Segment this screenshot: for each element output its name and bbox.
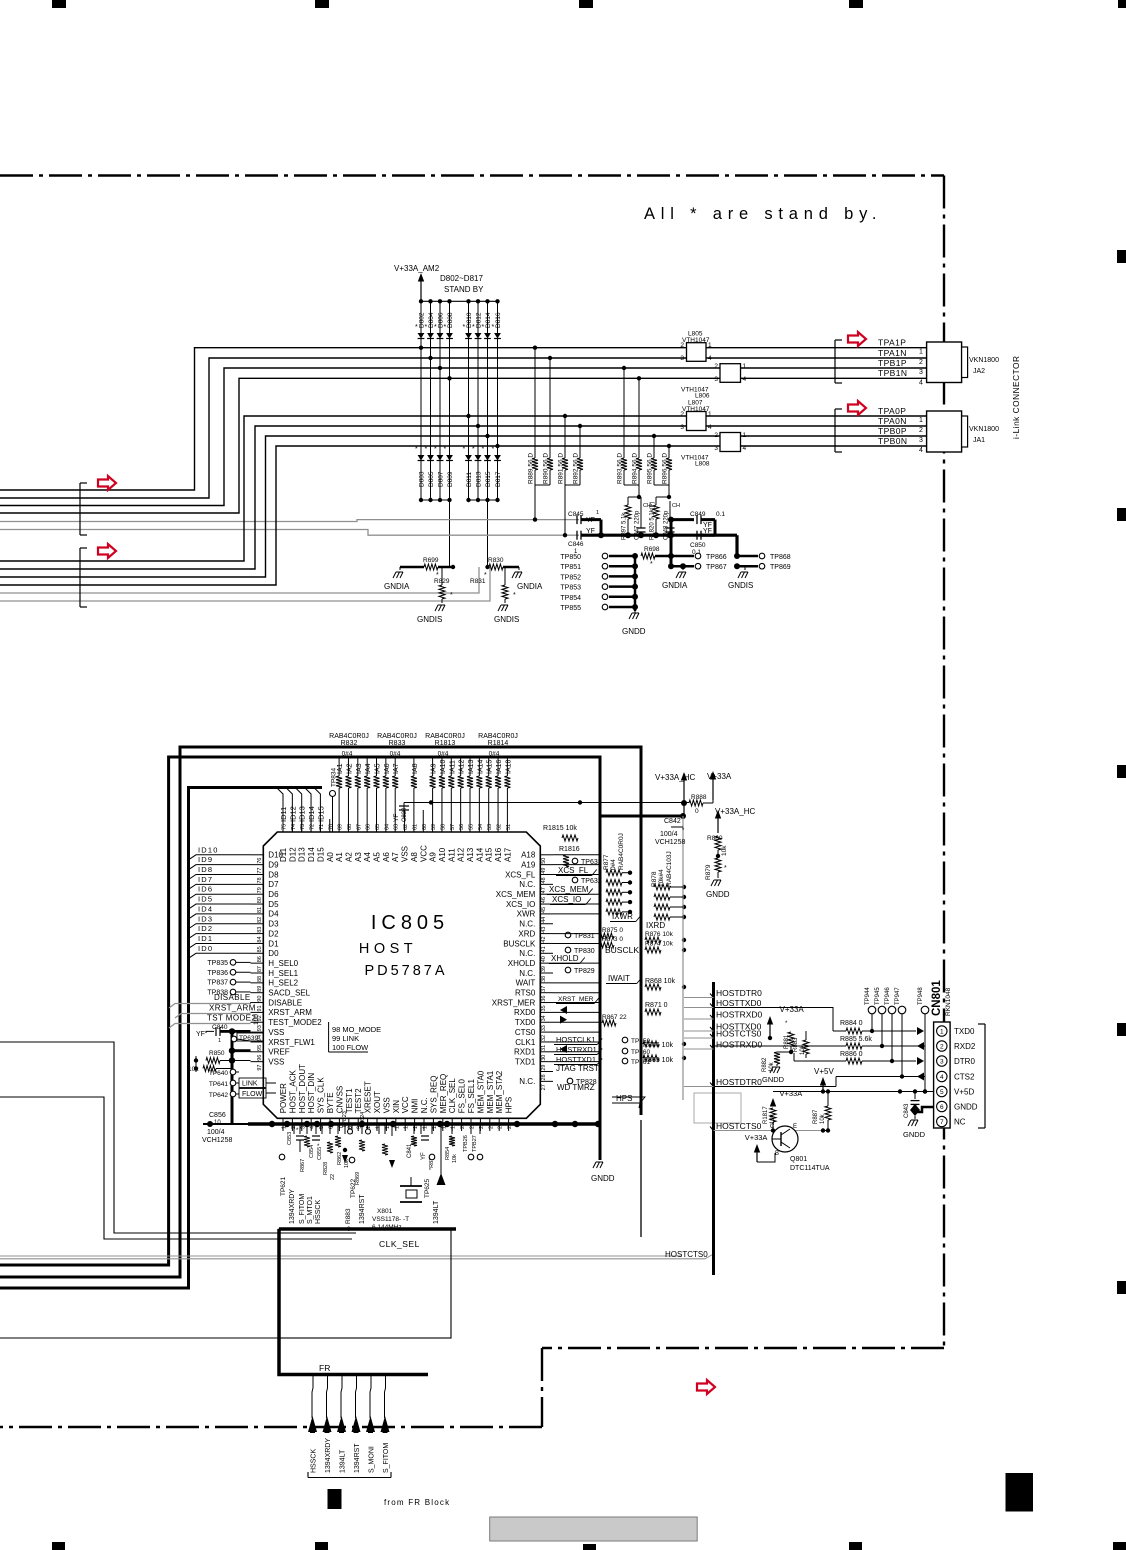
svg-text:IA3: IA3 bbox=[356, 763, 363, 774]
svg-text:*: * bbox=[482, 324, 485, 331]
svg-text:ID1: ID1 bbox=[198, 934, 213, 943]
svg-text:ID9: ID9 bbox=[198, 855, 213, 864]
svg-text:*: * bbox=[463, 446, 466, 453]
svg-text:22: 22 bbox=[330, 1174, 336, 1180]
svg-text:10k: 10k bbox=[452, 1154, 458, 1163]
svg-text:NC: NC bbox=[954, 1118, 966, 1127]
svg-text:XOUT: XOUT bbox=[373, 1091, 382, 1113]
svg-text:A5: A5 bbox=[373, 852, 382, 862]
svg-text:TP866: TP866 bbox=[706, 554, 727, 561]
svg-text:86: 86 bbox=[257, 956, 263, 962]
svg-text:C850: C850 bbox=[690, 542, 706, 549]
svg-text:TP829: TP829 bbox=[574, 968, 595, 975]
svg-text:JA1: JA1 bbox=[973, 437, 985, 444]
svg-text:TP837: TP837 bbox=[207, 980, 228, 987]
svg-text:*: * bbox=[450, 592, 453, 599]
svg-text:TP850: TP850 bbox=[560, 554, 581, 561]
svg-text:R882: R882 bbox=[762, 1057, 768, 1072]
svg-text:V+33A: V+33A bbox=[707, 772, 732, 781]
svg-text:*: * bbox=[444, 324, 447, 331]
svg-text:D811: D811 bbox=[466, 472, 473, 487]
svg-text:HOSTRXD0: HOSTRXD0 bbox=[716, 1010, 763, 1020]
svg-text:28: 28 bbox=[541, 1074, 547, 1080]
svg-text:D815: D815 bbox=[485, 471, 492, 487]
svg-text:TPA0P: TPA0P bbox=[878, 406, 906, 416]
svg-text:R862: R862 bbox=[337, 1152, 343, 1165]
svg-text:H_SEL2: H_SEL2 bbox=[268, 979, 298, 988]
svg-text:TP947: TP947 bbox=[895, 987, 901, 1005]
svg-text:MEM_STA1: MEM_STA1 bbox=[486, 1070, 495, 1113]
svg-text:35: 35 bbox=[541, 1005, 547, 1011]
svg-text:TXD1: TXD1 bbox=[515, 1057, 536, 1066]
svg-text:VTH1047: VTH1047 bbox=[682, 337, 710, 344]
svg-text:L806: L806 bbox=[695, 393, 710, 400]
svg-text:ID11: ID11 bbox=[279, 807, 288, 822]
svg-text:68: 68 bbox=[347, 824, 353, 830]
svg-text:GNDIS: GNDIS bbox=[728, 581, 753, 590]
svg-text:D15: D15 bbox=[316, 847, 325, 862]
svg-text:SACD_SEL: SACD_SEL bbox=[268, 989, 310, 998]
svg-text:2: 2 bbox=[714, 363, 718, 370]
svg-text:1394LT: 1394LT bbox=[340, 1449, 347, 1473]
svg-text:HSSCK: HSSCK bbox=[311, 1449, 318, 1473]
svg-text:R869: R869 bbox=[355, 1172, 361, 1185]
svg-text:43: 43 bbox=[541, 927, 547, 933]
svg-text:A6: A6 bbox=[382, 852, 391, 862]
svg-text:84: 84 bbox=[257, 936, 263, 942]
svg-text:TXD0: TXD0 bbox=[515, 1018, 536, 1027]
svg-text:IA6: IA6 bbox=[384, 763, 391, 774]
svg-text:64: 64 bbox=[384, 824, 390, 830]
svg-text:89: 89 bbox=[257, 986, 263, 992]
svg-text:83: 83 bbox=[257, 927, 263, 933]
svg-text:27: 27 bbox=[541, 1084, 547, 1090]
svg-text:DISABLE: DISABLE bbox=[268, 998, 302, 1007]
svg-text:GNDIS: GNDIS bbox=[417, 615, 442, 624]
svg-text:S_FITOM: S_FITOM bbox=[383, 1443, 390, 1473]
svg-text:D12: D12 bbox=[288, 847, 297, 862]
svg-text:CNVSS: CNVSS bbox=[335, 1086, 344, 1114]
svg-text:*: * bbox=[513, 592, 516, 599]
svg-text:76: 76 bbox=[257, 858, 263, 864]
svg-text:D809: D809 bbox=[447, 471, 454, 487]
svg-text:R833: R833 bbox=[389, 740, 406, 747]
svg-text:ID5: ID5 bbox=[198, 895, 213, 904]
svg-text:XHOLD: XHOLD bbox=[551, 954, 579, 963]
svg-text:D802~D817: D802~D817 bbox=[440, 274, 483, 283]
svg-text:IA18: IA18 bbox=[505, 759, 512, 774]
svg-text:IA8: IA8 bbox=[412, 763, 419, 774]
svg-text:TP855: TP855 bbox=[560, 605, 581, 612]
svg-text:TP946: TP946 bbox=[885, 987, 891, 1005]
svg-text:5: 5 bbox=[940, 1089, 944, 1096]
svg-text:0#4: 0#4 bbox=[390, 751, 401, 758]
svg-text:CLK_SEL: CLK_SEL bbox=[379, 1239, 420, 1249]
svg-text:46: 46 bbox=[541, 897, 547, 903]
svg-text:75: 75 bbox=[282, 824, 288, 830]
svg-text:RKN1048: RKN1048 bbox=[945, 987, 952, 1016]
svg-text:R895 56 D: R895 56 D bbox=[647, 453, 654, 484]
svg-text:TPA1P: TPA1P bbox=[878, 338, 906, 348]
svg-text:GNDD: GNDD bbox=[954, 1103, 978, 1112]
svg-text:XRST_MER: XRST_MER bbox=[492, 998, 536, 1007]
svg-text:R887: R887 bbox=[813, 1109, 819, 1124]
svg-text:*: * bbox=[463, 324, 466, 331]
svg-text:*: * bbox=[434, 324, 437, 331]
svg-text:N.C.: N.C. bbox=[519, 949, 535, 958]
svg-text:56: 56 bbox=[459, 824, 465, 830]
svg-text:45: 45 bbox=[541, 907, 547, 913]
svg-text:GNDD: GNDD bbox=[706, 890, 730, 899]
svg-text:TP624: TP624 bbox=[360, 1112, 366, 1128]
svg-text:C845: C845 bbox=[568, 511, 584, 518]
svg-text:D816: D816 bbox=[495, 312, 502, 328]
svg-text:A10: A10 bbox=[438, 847, 447, 862]
svg-text:CH: CH bbox=[672, 503, 680, 509]
svg-text:VCH1258: VCH1258 bbox=[202, 1137, 232, 1144]
svg-text:53: 53 bbox=[487, 824, 493, 830]
svg-text:4: 4 bbox=[708, 355, 712, 362]
svg-text:A1: A1 bbox=[335, 852, 344, 862]
svg-text:R877: R877 bbox=[603, 854, 610, 870]
svg-text:R699: R699 bbox=[423, 557, 439, 564]
svg-text:4: 4 bbox=[743, 445, 747, 452]
svg-text:A9: A9 bbox=[429, 852, 438, 862]
svg-text:S_FITOM: S_FITOM bbox=[299, 1194, 306, 1224]
svg-text:VCC: VCC bbox=[419, 845, 428, 862]
svg-text:C839: C839 bbox=[402, 807, 408, 822]
svg-text:4: 4 bbox=[919, 379, 923, 386]
svg-text:1394LT: 1394LT bbox=[433, 1200, 440, 1224]
svg-text:79: 79 bbox=[257, 887, 263, 893]
svg-text:D1: D1 bbox=[268, 939, 279, 948]
svg-text:SYS_REQ: SYS_REQ bbox=[429, 1076, 438, 1114]
svg-text:*: * bbox=[434, 446, 437, 453]
svg-text:V+33A: V+33A bbox=[745, 1133, 768, 1142]
svg-text:A8: A8 bbox=[410, 852, 419, 862]
svg-text:A19: A19 bbox=[521, 860, 536, 869]
svg-text:D6: D6 bbox=[268, 890, 279, 899]
svg-text:C843: C843 bbox=[904, 1103, 910, 1118]
svg-text:RAB4C0R0J: RAB4C0R0J bbox=[329, 733, 369, 740]
svg-text:R1814: R1814 bbox=[488, 740, 509, 747]
svg-text:ID6: ID6 bbox=[198, 885, 213, 894]
svg-text:GNDIA: GNDIA bbox=[662, 581, 688, 590]
svg-text:70: 70 bbox=[328, 824, 334, 830]
svg-text:D817: D817 bbox=[495, 471, 502, 487]
svg-text:78: 78 bbox=[257, 877, 263, 883]
svg-text:*: * bbox=[492, 324, 495, 331]
svg-text:54: 54 bbox=[478, 824, 484, 830]
svg-text:71: 71 bbox=[319, 824, 325, 830]
svg-text:1: 1 bbox=[218, 1038, 221, 1044]
svg-text:CLK_SEL: CLK_SEL bbox=[448, 1078, 457, 1114]
svg-text:TP944: TP944 bbox=[865, 987, 871, 1005]
svg-text:10k: 10k bbox=[820, 1113, 826, 1124]
svg-text:TP945: TP945 bbox=[875, 987, 881, 1005]
svg-text:R871 0: R871 0 bbox=[645, 1002, 668, 1009]
svg-text:*: * bbox=[425, 324, 428, 331]
svg-text:73: 73 bbox=[300, 824, 306, 830]
svg-text:32: 32 bbox=[541, 1035, 547, 1041]
svg-text:CTS0: CTS0 bbox=[515, 1028, 536, 1037]
svg-text:VCH1258: VCH1258 bbox=[655, 839, 685, 846]
svg-text:from FR Block: from FR Block bbox=[384, 1498, 450, 1507]
svg-text:IA11: IA11 bbox=[449, 760, 456, 774]
svg-text:C842: C842 bbox=[664, 818, 681, 825]
svg-text:TST MODE2: TST MODE2 bbox=[207, 1014, 256, 1023]
svg-text:52: 52 bbox=[497, 824, 503, 830]
svg-text:RXD2: RXD2 bbox=[954, 1042, 976, 1051]
svg-text:TEST1: TEST1 bbox=[345, 1088, 354, 1113]
svg-text:H_SEL0: H_SEL0 bbox=[268, 959, 298, 968]
svg-text:D5: D5 bbox=[268, 900, 279, 909]
svg-text:ID7: ID7 bbox=[198, 875, 213, 884]
svg-text:36: 36 bbox=[541, 996, 547, 1002]
svg-text:DTR0: DTR0 bbox=[954, 1057, 975, 1066]
svg-text:TPB1N: TPB1N bbox=[878, 368, 907, 378]
svg-text:IA16: IA16 bbox=[496, 759, 503, 774]
svg-text:D2: D2 bbox=[268, 929, 279, 938]
svg-text:HOSTCTS0: HOSTCTS0 bbox=[716, 1121, 762, 1131]
svg-text:TP640: TP640 bbox=[209, 1070, 229, 1077]
svg-text:0: 0 bbox=[695, 808, 699, 815]
svg-text:1: 1 bbox=[743, 432, 747, 439]
svg-text:2: 2 bbox=[714, 432, 718, 439]
svg-text:RXD0: RXD0 bbox=[514, 1008, 536, 1017]
svg-text:100 FLOW: 100 FLOW bbox=[332, 1043, 369, 1052]
svg-text:GNDD: GNDD bbox=[762, 1075, 785, 1084]
svg-text:R874 10k: R874 10k bbox=[645, 941, 674, 948]
svg-text:D13: D13 bbox=[298, 847, 307, 862]
svg-text:IA12: IA12 bbox=[459, 759, 466, 774]
svg-text:TP830: TP830 bbox=[574, 948, 595, 955]
svg-text:R886 0: R886 0 bbox=[840, 1051, 863, 1058]
svg-text:47: 47 bbox=[541, 887, 547, 893]
svg-text:R1815 10k: R1815 10k bbox=[543, 825, 577, 832]
svg-text:2: 2 bbox=[919, 427, 923, 434]
svg-text:N.C.: N.C. bbox=[420, 1097, 429, 1113]
svg-text:D803: D803 bbox=[419, 471, 426, 487]
svg-text:HOST_DOUT: HOST_DOUT bbox=[298, 1064, 307, 1113]
svg-text:A3: A3 bbox=[354, 852, 363, 862]
svg-text:TPB1P: TPB1P bbox=[878, 358, 907, 368]
svg-text:HPS: HPS bbox=[616, 1094, 632, 1103]
svg-text:0#4: 0#4 bbox=[489, 751, 500, 758]
svg-text:V+5V: V+5V bbox=[814, 1067, 834, 1076]
svg-text:V+33A: V+33A bbox=[780, 1089, 803, 1098]
svg-text:E: E bbox=[793, 1124, 797, 1130]
svg-text:VSS: VSS bbox=[382, 1097, 391, 1113]
svg-text:R892 56 D: R892 56 D bbox=[573, 453, 580, 484]
svg-text:A15: A15 bbox=[485, 847, 494, 862]
svg-text:38: 38 bbox=[541, 976, 547, 982]
svg-text:N.C.: N.C. bbox=[519, 969, 535, 978]
svg-text:ID15: ID15 bbox=[316, 806, 325, 822]
svg-text:D0: D0 bbox=[268, 949, 279, 958]
svg-text:TP834: TP834 bbox=[331, 767, 338, 787]
svg-text:69: 69 bbox=[338, 824, 344, 830]
svg-text:29: 29 bbox=[541, 1065, 547, 1071]
svg-text:CLK1: CLK1 bbox=[515, 1038, 536, 1047]
svg-text:TPA1N: TPA1N bbox=[878, 348, 907, 358]
svg-text:FR: FR bbox=[319, 1363, 330, 1373]
svg-text:IXRD: IXRD bbox=[646, 921, 665, 930]
svg-text:TPB26: TPB26 bbox=[463, 1135, 469, 1152]
svg-text:R883: R883 bbox=[345, 1208, 352, 1224]
svg-text:D805: D805 bbox=[428, 471, 435, 487]
svg-text:XCS_IO: XCS_IO bbox=[506, 900, 535, 909]
svg-text:POWER: POWER bbox=[279, 1083, 288, 1113]
svg-text:1: 1 bbox=[596, 510, 599, 516]
svg-text:100/4: 100/4 bbox=[660, 831, 678, 838]
svg-text:*: * bbox=[472, 324, 475, 331]
svg-text:77: 77 bbox=[257, 868, 263, 874]
svg-text:97: 97 bbox=[257, 1065, 263, 1071]
svg-text:*: * bbox=[472, 446, 475, 453]
svg-text:34: 34 bbox=[541, 1015, 547, 1021]
svg-text:DTC114TUA: DTC114TUA bbox=[790, 1165, 830, 1172]
svg-text:TEST_MODE2: TEST_MODE2 bbox=[268, 1018, 322, 1027]
svg-text:JTAG TRST: JTAG TRST bbox=[556, 1064, 599, 1073]
svg-text:X801: X801 bbox=[377, 1208, 393, 1215]
svg-text:GNDIA: GNDIA bbox=[384, 582, 410, 591]
svg-text:80: 80 bbox=[257, 897, 263, 903]
svg-text:R891 56 D: R891 56 D bbox=[558, 453, 565, 484]
svg-text:VTH1047: VTH1047 bbox=[682, 406, 710, 413]
svg-text:C846: C846 bbox=[568, 541, 584, 548]
svg-text:C849: C849 bbox=[690, 511, 706, 518]
svg-text:62: 62 bbox=[403, 824, 409, 830]
svg-text:TP836: TP836 bbox=[207, 970, 228, 977]
svg-text:XRST_FLW1: XRST_FLW1 bbox=[268, 1038, 315, 1047]
svg-text:7: 7 bbox=[940, 1119, 944, 1126]
svg-text:C854: C854 bbox=[309, 1145, 315, 1158]
svg-text:XRESET: XRESET bbox=[364, 1081, 373, 1113]
svg-text:R830: R830 bbox=[488, 557, 504, 564]
svg-text:VSS: VSS bbox=[401, 846, 410, 862]
svg-text:93: 93 bbox=[257, 1025, 263, 1031]
svg-text:74: 74 bbox=[291, 824, 297, 830]
svg-text:*: * bbox=[492, 446, 495, 453]
svg-text:R889 56 D: R889 56 D bbox=[528, 453, 535, 484]
svg-text:SYS_CLK: SYS_CLK bbox=[317, 1077, 326, 1114]
svg-text:57: 57 bbox=[450, 824, 456, 830]
svg-text:RTS0: RTS0 bbox=[515, 989, 536, 998]
svg-text:RAB4C0R0J: RAB4C0R0J bbox=[425, 733, 465, 740]
svg-text:96: 96 bbox=[257, 1055, 263, 1061]
svg-text:RXD1: RXD1 bbox=[514, 1048, 536, 1057]
svg-text:42: 42 bbox=[541, 936, 547, 942]
svg-text:4: 4 bbox=[940, 1074, 944, 1081]
svg-text:*: * bbox=[650, 561, 653, 568]
svg-text:TP853: TP853 bbox=[560, 585, 581, 592]
svg-text:RAB4C0R0J: RAB4C0R0J bbox=[618, 833, 625, 870]
svg-text:*: * bbox=[444, 446, 447, 453]
svg-text:R831: R831 bbox=[470, 578, 486, 585]
svg-text:R885 5.6k: R885 5.6k bbox=[840, 1036, 872, 1043]
svg-text:VSS1178- -T: VSS1178- -T bbox=[372, 1216, 409, 1223]
svg-text:R876 10k: R876 10k bbox=[645, 931, 674, 938]
svg-text:ID8: ID8 bbox=[198, 865, 213, 874]
svg-text:S_MONI: S_MONI bbox=[369, 1446, 376, 1473]
svg-text:R867: R867 bbox=[300, 1159, 306, 1172]
svg-text:V+33A_AM2: V+33A_AM2 bbox=[394, 264, 440, 273]
svg-text:TP632: TP632 bbox=[581, 878, 602, 885]
svg-text:IC805: IC805 bbox=[371, 912, 449, 934]
svg-text:BUSCLK: BUSCLK bbox=[503, 939, 536, 948]
svg-text:6: 6 bbox=[940, 1104, 944, 1111]
svg-text:A16: A16 bbox=[494, 847, 503, 862]
svg-text:TP948: TP948 bbox=[918, 987, 924, 1005]
svg-text:V+33A_HC: V+33A_HC bbox=[715, 807, 755, 816]
svg-text:HOST_DIN: HOST_DIN bbox=[307, 1073, 316, 1114]
svg-text:GNDD: GNDD bbox=[591, 1174, 615, 1183]
svg-text:VSS: VSS bbox=[268, 1057, 284, 1066]
svg-text:1394RST: 1394RST bbox=[359, 1194, 366, 1224]
svg-text:DISABLE: DISABLE bbox=[214, 993, 251, 1002]
svg-text:MEM_STA2: MEM_STA2 bbox=[495, 1070, 504, 1113]
svg-text:R832: R832 bbox=[341, 740, 358, 747]
svg-text:B: B bbox=[775, 1151, 779, 1157]
svg-text:IA15: IA15 bbox=[487, 759, 494, 774]
svg-text:R854: R854 bbox=[445, 1147, 451, 1160]
svg-text:0.1: 0.1 bbox=[716, 511, 725, 518]
svg-text:TP852: TP852 bbox=[560, 574, 581, 581]
svg-text:FS_SEL1: FS_SEL1 bbox=[467, 1079, 476, 1114]
svg-text:IA1: IA1 bbox=[337, 763, 344, 774]
svg-text:4: 4 bbox=[919, 447, 923, 454]
svg-text:XRD: XRD bbox=[518, 929, 535, 938]
svg-text:1394RST: 1394RST bbox=[354, 1443, 361, 1473]
svg-text:3: 3 bbox=[680, 355, 684, 362]
svg-text:10k: 10k bbox=[721, 845, 728, 856]
svg-text:IWAIT: IWAIT bbox=[608, 974, 630, 983]
svg-text:*: * bbox=[425, 446, 428, 453]
svg-text:BYTE: BYTE bbox=[326, 1092, 335, 1113]
svg-text:ID2: ID2 bbox=[198, 924, 213, 933]
svg-text:3: 3 bbox=[940, 1059, 944, 1066]
svg-text:A14: A14 bbox=[475, 847, 484, 862]
svg-text:TP867: TP867 bbox=[706, 564, 727, 571]
svg-text:XCS_FL: XCS_FL bbox=[558, 866, 589, 875]
svg-text:YF: YF bbox=[393, 814, 400, 822]
svg-text:ID12: ID12 bbox=[288, 806, 297, 822]
svg-text:R829: R829 bbox=[434, 578, 450, 585]
svg-text:C853: C853 bbox=[287, 1132, 293, 1145]
svg-text:4: 4 bbox=[708, 424, 712, 431]
svg-text:33: 33 bbox=[541, 1025, 547, 1031]
svg-text:TXD0: TXD0 bbox=[954, 1027, 975, 1036]
svg-text:37: 37 bbox=[541, 986, 547, 992]
svg-text:50: 50 bbox=[541, 858, 547, 864]
svg-text:A17: A17 bbox=[503, 847, 512, 862]
svg-text:MEM_STA0: MEM_STA0 bbox=[476, 1070, 485, 1113]
svg-text:IA14: IA14 bbox=[477, 759, 484, 774]
svg-text:RAB4C0R0J: RAB4C0R0J bbox=[377, 733, 417, 740]
svg-text:XWR: XWR bbox=[517, 910, 536, 919]
svg-text:MER_REQ: MER_REQ bbox=[439, 1074, 448, 1114]
svg-text:ID14: ID14 bbox=[307, 806, 316, 822]
svg-text:R883: R883 bbox=[793, 1037, 799, 1052]
svg-text:59: 59 bbox=[431, 824, 437, 830]
svg-text:TEST2: TEST2 bbox=[354, 1088, 363, 1113]
svg-text:IA7: IA7 bbox=[393, 763, 400, 774]
svg-text:YF: YF bbox=[196, 1031, 205, 1038]
svg-text:90: 90 bbox=[257, 996, 263, 1002]
svg-text:N.C.: N.C. bbox=[519, 880, 535, 889]
svg-text:PD5787A: PD5787A bbox=[364, 963, 447, 979]
